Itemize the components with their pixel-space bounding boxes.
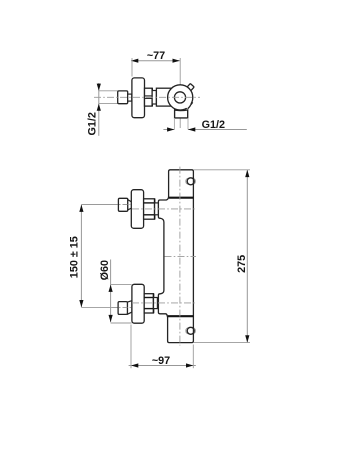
- bottom inlet axis centerline: [132, 302, 196, 304]
- dimension 150 +/- 15 line: [79, 205, 83, 308]
- top screw: [187, 178, 194, 185]
- extension lines 275: [194, 169, 250, 171]
- bottom screw boss: [186, 328, 195, 334]
- thick seam under top cap: [169, 197, 194, 199]
- bottom wall flange disc (front view): [132, 284, 144, 323]
- extension line top inlet axis: [81, 204, 117, 206]
- svg-text:275: 275: [236, 255, 248, 273]
- thick seam over bottom cap: [168, 315, 194, 317]
- centerline through bottom nut: [112, 306, 132, 308]
- dimension G1/2 (wall pipe) vertical line: [97, 83, 101, 136]
- top screw boss: [186, 178, 195, 184]
- extension line left of ~77: [131, 58, 133, 77]
- outlet block under valve (top view): [175, 110, 188, 118]
- centerline through top nut: [112, 204, 132, 206]
- dimension 275 line: [245, 170, 249, 343]
- bottom taper piece: [128, 301, 132, 315]
- pipe stub between nut and flange (top view): [128, 94, 132, 101]
- top wall flange disc (front view): [131, 190, 143, 229]
- vertical centerline of body: [179, 167, 181, 346]
- dimension O60 line: [109, 260, 113, 323]
- wall nut (top view): [118, 91, 128, 104]
- outlet thread projection lines: [173, 118, 175, 129]
- cartridge inner circle (top view): [174, 92, 185, 103]
- dimension G1/2 (outlet) arrows: [163, 127, 246, 131]
- top wall nut (front view): [118, 198, 127, 211]
- horizontal centerline of top view: [94, 96, 200, 98]
- dimension ~77 line: [131, 59, 180, 63]
- tab on valve body (top view): [187, 84, 194, 91]
- mixer body outline (front view): [158, 170, 193, 343]
- notch on valve body lower right: [185, 102, 194, 110]
- extension lines / pipe edges G1/2 left: [99, 90, 118, 92]
- top taper piece: [128, 200, 133, 210]
- horizontal mid centerline of body: [165, 255, 197, 257]
- bottom screw: [187, 327, 194, 334]
- valve inlet block (top view): [156, 88, 174, 106]
- extension lines O60: [111, 283, 132, 285]
- union hex nut (top view): [145, 88, 153, 106]
- extension lines ~97: [130, 325, 132, 369]
- svg-text:~97: ~97: [152, 355, 170, 367]
- extension line bottom inlet axis: [81, 306, 117, 308]
- extension / vertical centerline of valve body (top view): [179, 58, 181, 128]
- svg-text:150 ± 15: 150 ± 15: [69, 236, 81, 278]
- top union hex nut (front view): [144, 199, 155, 219]
- svg-text:G1/2: G1/2: [86, 112, 98, 135]
- bottom union hex nut (front view): [144, 294, 153, 313]
- svg-text:G1/2: G1/2: [202, 119, 225, 131]
- valve body circle (top view): [168, 85, 193, 110]
- wall flange disc (top view): [132, 78, 145, 118]
- top inlet axis centerline: [132, 208, 196, 210]
- bottom wall nut (front view): [118, 302, 127, 315]
- bottom union cylinder (front view): [154, 298, 158, 309]
- dimension ~97 line: [129, 363, 196, 367]
- top union cylinder (front view): [155, 203, 159, 215]
- svg-text:Ø60: Ø60: [99, 260, 111, 280]
- svg-text:~77: ~77: [147, 50, 165, 62]
- body right edge over screws: [192, 177, 194, 185]
- union cylinder (top view): [152, 91, 156, 105]
